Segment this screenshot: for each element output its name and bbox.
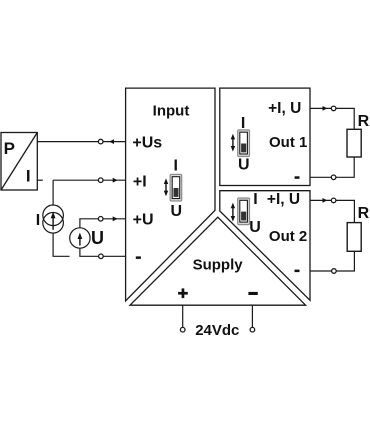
Out 2 output wire	[310, 200, 354, 222]
switch selector (Out 1)	[231, 115, 250, 174]
svg-text:Supply: Supply	[193, 257, 244, 274]
svg-text:I: I	[36, 212, 40, 229]
wire current source to minus row	[53, 233, 70, 256]
wire from +I row down to current source	[52, 180, 54, 205]
supply wire +	[182, 305, 184, 327]
svg-text:U: U	[171, 203, 183, 220]
wire minus row into box	[103, 255, 125, 257]
transmitter P/I box	[1, 133, 37, 191]
wire R2 bottom	[336, 251, 354, 271]
switch selector (Out 2)	[231, 191, 261, 236]
wire Out2 minus row	[310, 270, 332, 272]
svg-text:+U: +U	[133, 212, 154, 229]
terminal minus (input)	[99, 254, 104, 259]
terminal +Us	[98, 139, 103, 144]
svg-text:+Us: +Us	[132, 134, 162, 151]
svg-text:+I, U: +I, U	[267, 191, 300, 208]
arrow +Us (points left)	[109, 139, 114, 144]
svg-text:24Vdc: 24Vdc	[195, 322, 239, 339]
terminal +I	[98, 178, 103, 183]
svg-text:P: P	[4, 139, 15, 158]
Out 1 output wire	[310, 108, 354, 129]
Out 1 block	[220, 88, 310, 185]
svg-text:U: U	[238, 157, 250, 174]
terminal Out2 +	[331, 198, 336, 203]
svg-text:Out 1: Out 1	[269, 134, 307, 151]
svg-text:U: U	[249, 219, 261, 236]
wire voltage source to +U row	[80, 219, 99, 228]
svg-text:Input: Input	[153, 103, 190, 120]
Supply block (triangle)	[130, 217, 306, 305]
terminal Out1 +	[331, 106, 336, 111]
svg-text:I: I	[253, 191, 257, 208]
stub from transmitter to +I row	[37, 179, 43, 181]
wire +U row into box	[103, 218, 126, 220]
wire R1 bottom	[336, 157, 354, 177]
Out 2 block	[220, 191, 310, 301]
current source I	[43, 205, 64, 233]
label - (supply)	[248, 292, 257, 295]
svg-text:R: R	[358, 205, 370, 222]
terminal supply -	[250, 327, 255, 332]
label minus (Out 2)	[295, 270, 300, 273]
supply wire -	[251, 305, 253, 327]
wire +I row	[53, 179, 126, 181]
wire voltage source to minus row	[80, 248, 99, 256]
svg-text:Out 2: Out 2	[269, 228, 307, 245]
svg-text:R: R	[358, 113, 370, 130]
switch selector (Input)	[164, 158, 182, 220]
Input block	[126, 88, 215, 301]
wire Out1 minus row	[310, 176, 331, 178]
svg-text:I: I	[26, 166, 31, 185]
svg-text:I: I	[174, 158, 178, 175]
arrow Out2 (points right)	[323, 198, 328, 203]
terminal Out1 -	[331, 175, 336, 180]
arrow +I (points right)	[113, 178, 118, 183]
svg-text:U: U	[91, 228, 104, 248]
arrow Out1 (points right)	[323, 106, 328, 111]
voltage source U	[70, 228, 90, 248]
resistor R1	[347, 129, 361, 157]
label minus (Out 1)	[295, 176, 300, 179]
terminal +U	[98, 217, 103, 222]
svg-text:+I: +I	[133, 173, 147, 190]
label minus (Input)	[136, 256, 141, 259]
wire +Us row	[37, 141, 125, 143]
resistor R2	[347, 223, 361, 252]
arrow +U (points right)	[113, 216, 118, 221]
terminal supply +	[180, 327, 185, 332]
terminal Out2 -	[332, 269, 337, 274]
label + (supply)	[178, 288, 188, 298]
svg-text:+I, U: +I, U	[268, 100, 301, 117]
